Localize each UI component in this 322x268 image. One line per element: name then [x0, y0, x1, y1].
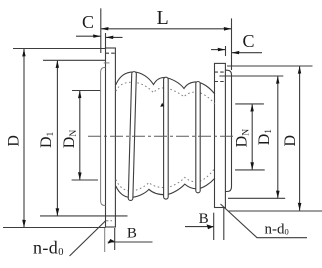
extension line D1 left bottom — [40, 215, 128, 217]
arrowhead D left bottom — [22, 220, 26, 228]
left flange bolt hole hidden line top — [106, 52, 116, 54]
arrowhead L right — [224, 27, 232, 31]
reinforcement ring bar 3 — [196, 82, 200, 193]
extension line D right bottom — [228, 210, 322, 212]
svg-text:B: B — [199, 211, 209, 227]
extension line DN left top — [72, 90, 101, 92]
B right extension line b — [223, 208, 225, 240]
extension bar C right — [225, 46, 227, 56]
arrowhead DN right bottom — [250, 162, 254, 170]
dimension C left: left tail with right-pointing arrow — [76, 35, 101, 37]
centerline axis (dash-dot) — [88, 135, 236, 137]
extension line D left bottom — [3, 227, 106, 229]
dimension line L — [101, 28, 232, 30]
arrowhead D right bottom — [298, 203, 302, 211]
arrowhead DN left bottom — [78, 172, 82, 180]
extension line DN right bottom — [235, 169, 265, 171]
arrowhead D1 left bottom — [56, 208, 60, 216]
dimension D1 right: vertical dimension line — [277, 76, 279, 198]
right rubber bead — [225, 70, 231, 191]
extension line DN left bottom — [72, 179, 98, 181]
extension line D right top — [227, 65, 313, 67]
reinforcement ring bar 2 — [164, 77, 169, 199]
arrowhead C right a — [218, 48, 226, 51]
B left arrowhead — [108, 239, 115, 244]
right flange bolt hole hidden line 2 — [215, 81, 226, 83]
svg-text:C: C — [82, 12, 94, 32]
left flange plate — [106, 48, 116, 227]
svg-text:D1: D1 — [256, 129, 274, 146]
extension line D left top — [13, 48, 106, 50]
reinforcement ring bar 1 — [128, 72, 136, 201]
svg-text:D1: D1 — [38, 131, 56, 148]
B left extension line a — [104, 228, 106, 252]
extension line for L and C right (above right bead face) — [231, 18, 233, 70]
dimension D1 left: vertical dimension line — [56, 60, 58, 216]
right flange bolt hole hidden line top — [215, 71, 226, 73]
bellows inner profile top (dashed) — [116, 82, 215, 104]
dimension C left: right tail with left-pointing arrow — [106, 36, 123, 38]
bellows outer profile bottom — [116, 178, 215, 197]
svg-text:B: B — [127, 226, 137, 242]
left rubber bead — [101, 67, 106, 205]
dimension C right: right tail with left-pointing arrow — [232, 52, 262, 54]
arrowhead DN right top — [250, 104, 253, 112]
n-d0 leader left — [70, 220, 107, 256]
svg-text:n-d0: n-d0 — [33, 237, 64, 258]
arrowhead C left a — [93, 34, 101, 37]
B right dimension line — [185, 226, 214, 228]
extension line D1 left top — [43, 59, 106, 61]
extension line for L and C left (above left bead face) — [100, 8, 102, 53]
extension bar C left (flange face extended up) — [105, 33, 107, 48]
extension line DN right top — [235, 103, 264, 105]
extension line D1 right top — [219, 75, 283, 77]
bellows inner profile bottom (dashed) — [116, 168, 215, 191]
left flange bolt hole line 2 — [104, 62, 110, 64]
arrowhead D left top — [22, 49, 25, 57]
svg-text:n-d0: n-d0 — [265, 221, 289, 237]
arrowhead C left b — [106, 36, 114, 39]
right flange plate — [215, 63, 226, 207]
svg-text:C: C — [242, 31, 254, 51]
bellows outer profile top — [116, 72, 215, 94]
arrowhead D1 right bottom — [276, 191, 280, 199]
left flange bolt hole hidden line bottom — [106, 220, 113, 222]
dimension D right: vertical dimension line — [299, 66, 301, 211]
arrowhead L left — [101, 27, 109, 30]
svg-text:L: L — [156, 7, 168, 29]
small arrow mark on bar 2 — [160, 103, 164, 107]
svg-text:DN: DN — [61, 130, 79, 149]
B right extension line a — [213, 213, 215, 240]
svg-text:D: D — [5, 135, 22, 147]
dimension D left: vertical dimension line — [23, 49, 25, 228]
arrowhead DN left top — [78, 91, 81, 99]
B left dimension line — [108, 241, 153, 243]
arrowhead C right b — [232, 51, 240, 54]
svg-text:DN: DN — [234, 129, 252, 148]
extension line D1 right bottom — [228, 197, 285, 199]
dimension C right: left tail with right-pointing arrow — [211, 49, 225, 51]
dimension DN left: vertical dimension line — [79, 91, 81, 181]
arrowhead D1 left top — [56, 60, 59, 68]
B left extension line b — [114, 228, 116, 250]
arrowhead D1 right top — [276, 76, 279, 84]
svg-text:D: D — [282, 135, 299, 147]
arrowhead D right top — [298, 66, 301, 74]
n-d0 leader right — [221, 204, 308, 238]
dimension DN right: vertical dimension line — [251, 104, 253, 170]
B right arrowhead — [207, 224, 214, 229]
